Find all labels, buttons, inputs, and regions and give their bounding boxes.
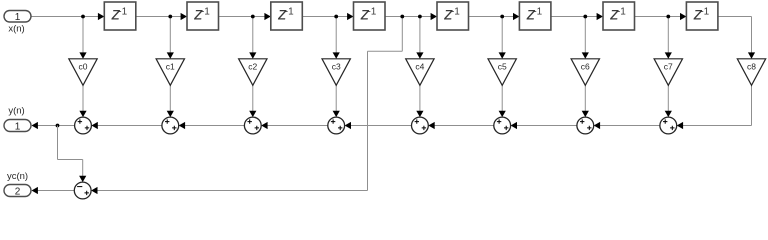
junction node: tap to c7 xyxy=(666,15,670,19)
svg-text:-1: -1 xyxy=(700,7,709,18)
wire: adder S2 output to adder S1 xyxy=(91,122,161,129)
gain c2 (triangle) xyxy=(239,59,267,86)
wire: delay block 1 to delay block 2 xyxy=(136,13,187,20)
svg-text:c7: c7 xyxy=(664,62,673,72)
junction node: tap to c1 xyxy=(168,15,172,19)
wire: gain c3 output down to adder S4 xyxy=(333,85,340,117)
junction node: tap to c3 xyxy=(334,15,338,19)
delay block Z5 (z^-1) xyxy=(437,2,469,30)
adder S6 (sum ++) xyxy=(494,117,511,134)
wire: tap junction to gain c5 xyxy=(499,17,506,59)
svg-text:c2: c2 xyxy=(248,62,257,72)
delay block Z1 (z^-1) xyxy=(104,2,136,30)
label yc(n) xyxy=(7,171,28,182)
adder S1 (sum ++) xyxy=(75,117,92,134)
adder S2 (sum ++) xyxy=(162,117,179,134)
wire: delay block 8 output to gain c8 (right, then down) xyxy=(718,17,755,59)
svg-text:y(n): y(n) xyxy=(8,106,24,117)
wire: adder S6 output to adder S5 xyxy=(428,122,494,129)
wire: adder S4 output to adder S3 xyxy=(261,122,328,129)
adder S5 (sum ++) xyxy=(412,117,429,134)
wire: y(n) junction down/right/down into subtractor top (minus input) xyxy=(58,126,87,183)
wire: subtractor output to outport yc(n) xyxy=(32,187,75,194)
wire: tap junction to gain c2 xyxy=(249,17,256,59)
svg-text:1: 1 xyxy=(15,12,21,23)
svg-text:c5: c5 xyxy=(498,62,507,72)
junction node: tap to c5 xyxy=(500,15,504,19)
junction node: tap to c0 xyxy=(81,15,85,19)
gain c4 (triangle) xyxy=(406,59,434,86)
junction node: tap to c6 xyxy=(583,15,587,19)
wire: delay block 4 to delay block 5 xyxy=(385,13,437,20)
wire: tap junction to gain c1 xyxy=(167,17,174,59)
wire: gain c6 output down to adder S7 xyxy=(582,85,589,117)
svg-text:-1: -1 xyxy=(285,7,294,18)
wire: delay block 3 to delay block 4 xyxy=(302,13,353,20)
label y(n) xyxy=(8,106,24,117)
wire: adder S8 output to adder S7 xyxy=(594,122,660,129)
wire: input x(n) to delay block 1 xyxy=(31,13,104,20)
junction on y(n) line xyxy=(56,124,60,128)
wire: tap junction to gain c3 xyxy=(333,17,340,59)
wire: adder S5 output to adder S4 xyxy=(345,122,412,129)
outport 1 y(n) xyxy=(4,120,31,133)
gain c6 (triangle) xyxy=(571,59,599,86)
junction node: tap to c2 xyxy=(251,15,255,19)
gain c5 (triangle) xyxy=(488,59,516,86)
svg-text:c3: c3 xyxy=(332,62,341,72)
wire: gain c2 output down to adder S3 xyxy=(249,85,256,117)
junction node: tap to subtractor path xyxy=(400,15,404,19)
wire: staircase from delay-line junction after block 4 down to subtractor plus input xyxy=(91,17,402,195)
adder S4 (sum ++) xyxy=(328,117,345,134)
svg-text:-1: -1 xyxy=(533,7,542,18)
wire: tap junction to gain c0 xyxy=(79,17,86,59)
wire: adder S1 output to outport y(n) xyxy=(32,122,75,129)
wire: gain c8 output down then left into adder S8 xyxy=(677,85,752,129)
svg-text:c0: c0 xyxy=(79,62,88,72)
wire: adder S7 output to adder S6 xyxy=(511,122,577,129)
adder S8 (sum ++) xyxy=(660,117,677,134)
adder S3 (sum ++) xyxy=(244,117,261,134)
outport 2 yc(n) xyxy=(4,185,31,198)
wire: tap junction to gain c6 xyxy=(582,17,589,59)
svg-text:1: 1 xyxy=(15,122,21,133)
wire: gain c5 output down to adder S6 xyxy=(499,85,506,117)
wire: gain c1 output down to adder S2 xyxy=(167,85,174,117)
svg-text:-1: -1 xyxy=(367,7,376,18)
wire: delay block 7 to delay block 8 xyxy=(635,13,687,20)
svg-text:2: 2 xyxy=(15,187,21,198)
wire: adder S3 output to adder S2 xyxy=(179,122,245,129)
delay block Z7 (z^-1) xyxy=(603,2,635,30)
svg-text:yc(n): yc(n) xyxy=(7,171,28,182)
wire: gain c7 output down to adder S8 xyxy=(665,85,672,117)
gain c8 (triangle) xyxy=(737,59,765,86)
inport 1 xyxy=(4,11,31,24)
gain c7 (triangle) xyxy=(654,59,682,86)
svg-text:-1: -1 xyxy=(201,7,210,18)
svg-text:-1: -1 xyxy=(118,7,127,18)
wire: tap junction to gain c7 xyxy=(665,17,672,59)
svg-text:c4: c4 xyxy=(415,62,424,72)
wire: gain c0 output down to adder S1 xyxy=(79,85,86,117)
delay block Z6 (z^-1) xyxy=(519,2,551,30)
svg-text:c8: c8 xyxy=(747,62,756,72)
wire: gain c4 output down to adder S5 xyxy=(416,85,423,117)
label x(n) xyxy=(8,24,24,35)
junction node: tap to c4 xyxy=(418,15,422,19)
wire: tap junction to gain c4 xyxy=(416,17,423,59)
adder S7 (sum ++) xyxy=(577,117,594,134)
svg-text:c1: c1 xyxy=(166,62,175,72)
delay block Z8 (z^-1) xyxy=(686,2,718,30)
svg-text:c6: c6 xyxy=(581,62,590,72)
delay block Z4 (z^-1) xyxy=(354,2,386,30)
wire: delay block 2 to delay block 3 xyxy=(219,13,271,20)
svg-text:-1: -1 xyxy=(451,7,460,18)
svg-text:-1: -1 xyxy=(617,7,626,18)
delay block Z3 (z^-1) xyxy=(271,2,303,30)
gain c0 (triangle) xyxy=(69,59,97,86)
svg-text:x(n): x(n) xyxy=(8,24,24,35)
gain c3 (triangle) xyxy=(322,59,350,86)
subtractor (sum -+) xyxy=(74,182,91,199)
wire: delay block 5 to delay block 6 xyxy=(469,13,520,20)
delay block Z2 (z^-1) xyxy=(187,2,219,30)
wire: delay block 6 to delay block 7 xyxy=(551,13,603,20)
gain c1 (triangle) xyxy=(156,59,184,86)
